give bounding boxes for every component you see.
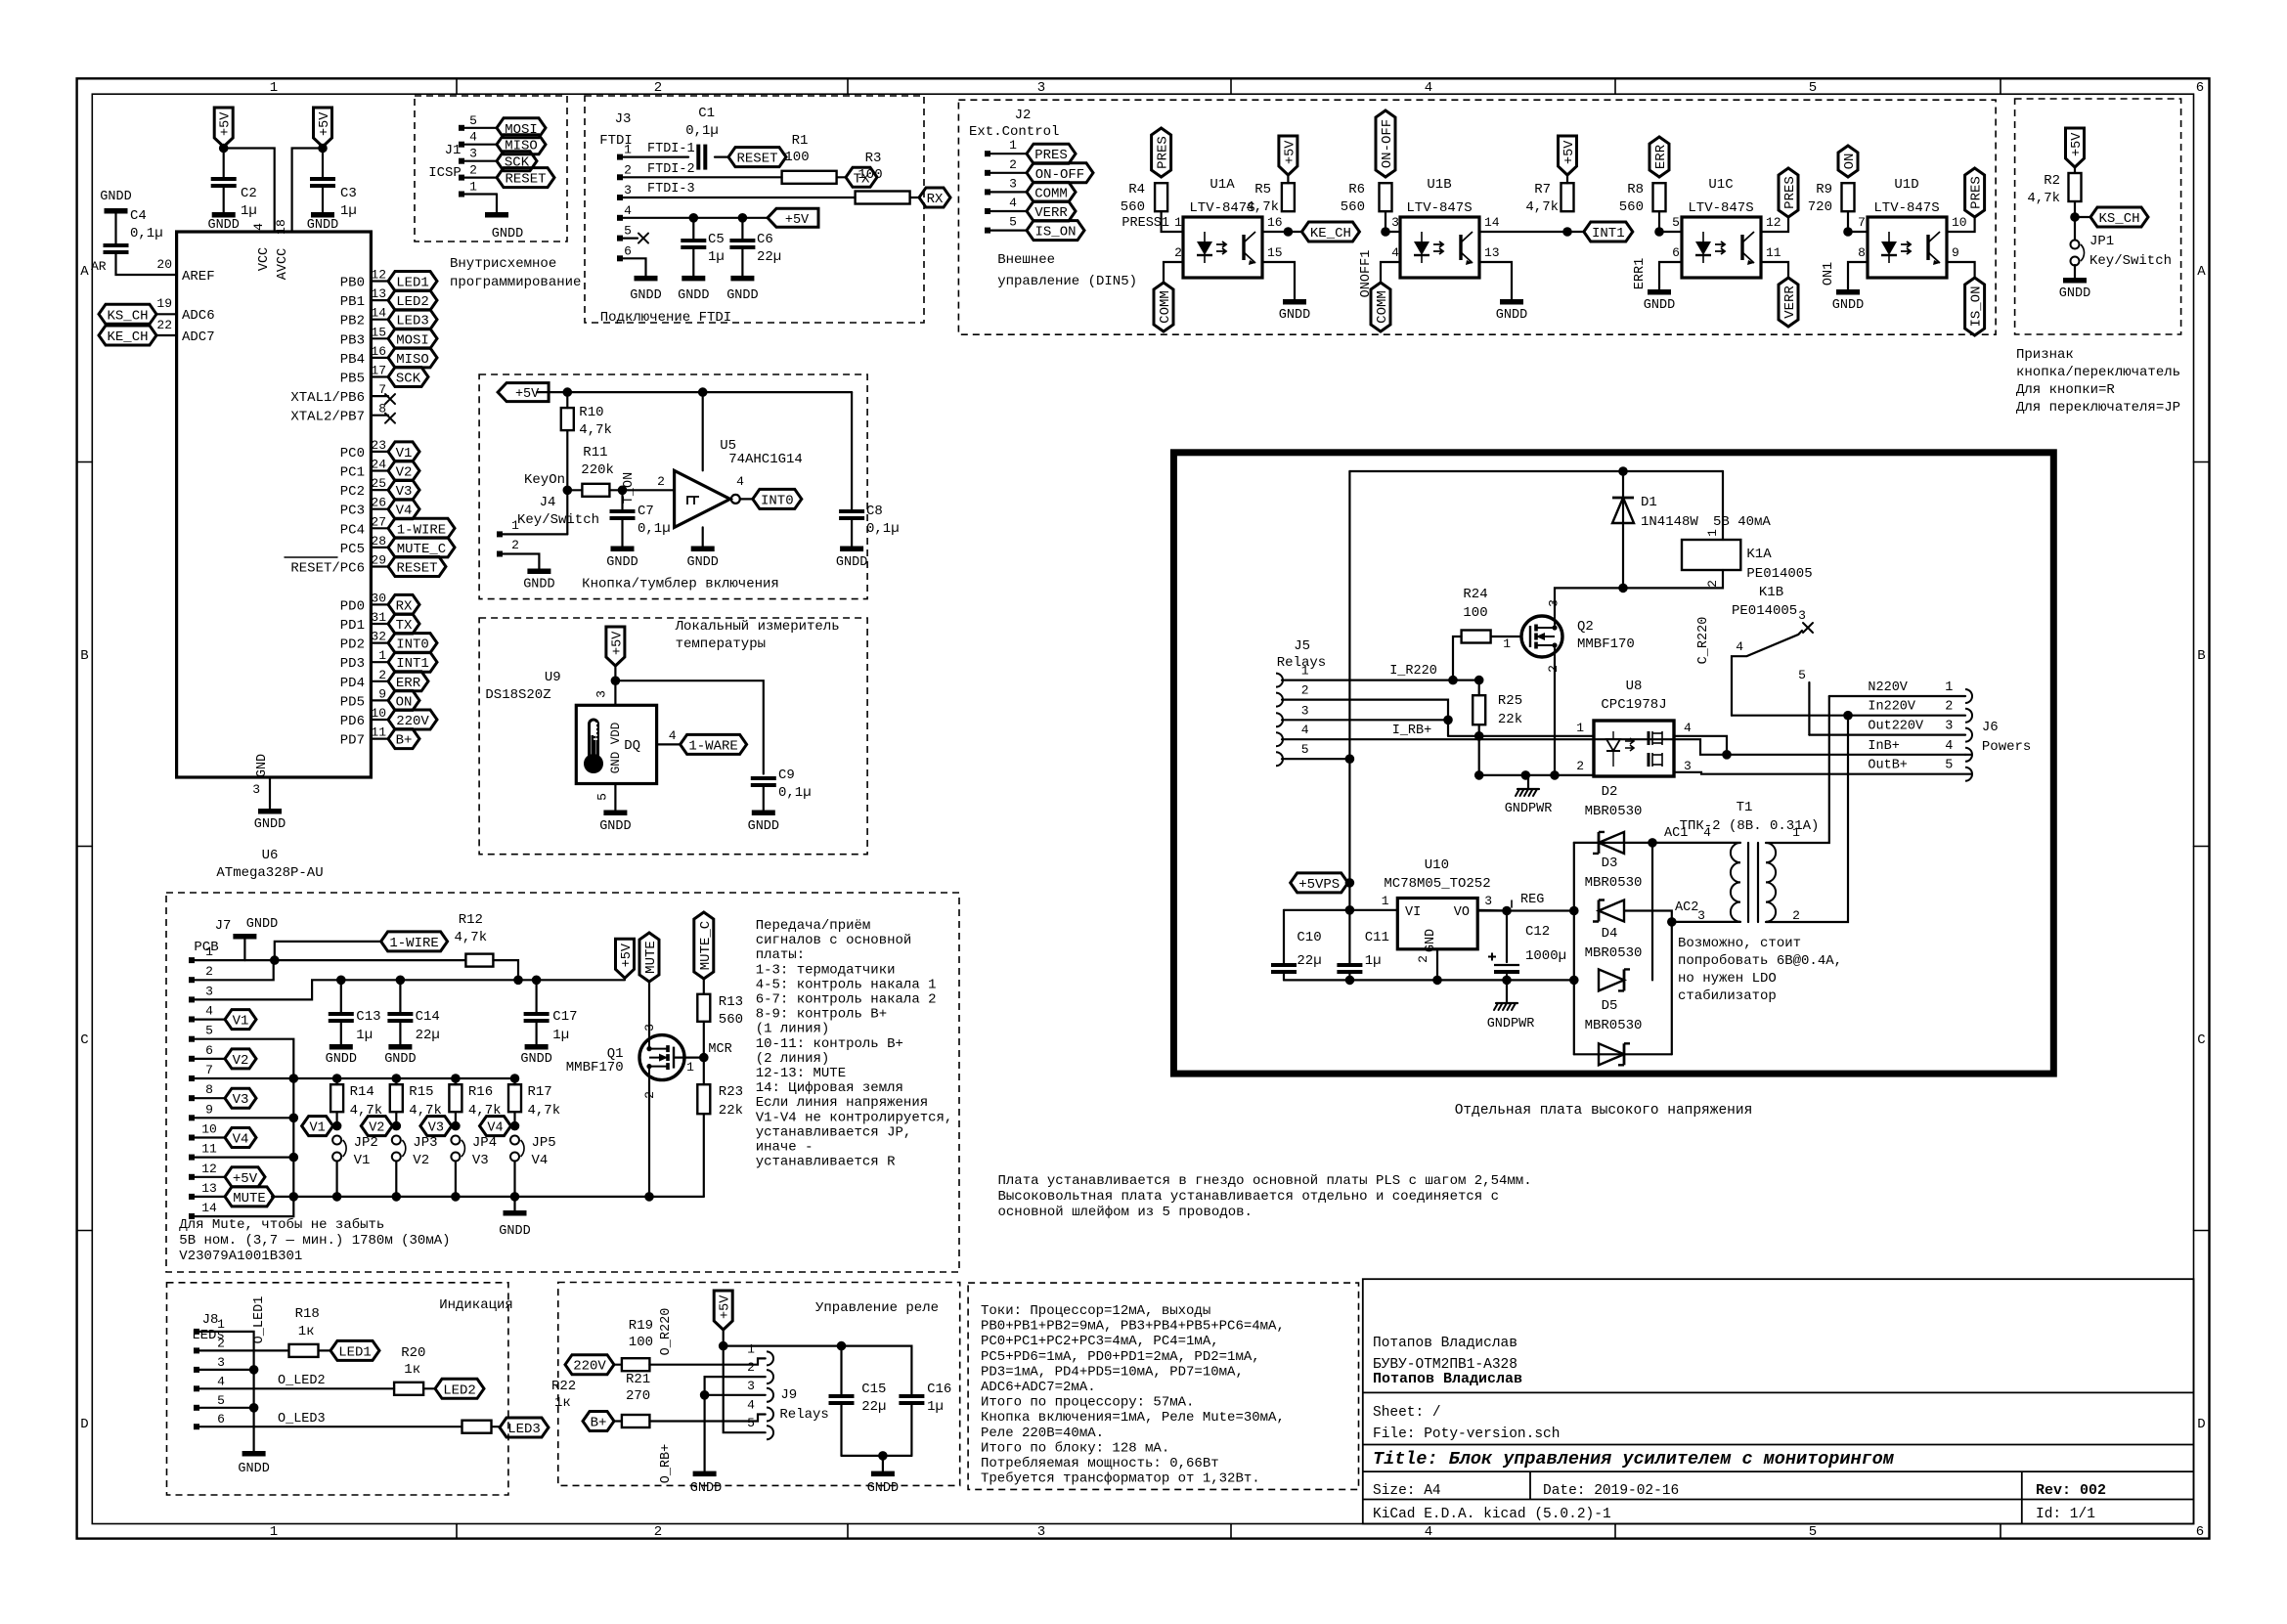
- label +5V (J7 pin12): [192, 1176, 225, 1178]
- svg-text:ADC7: ADC7: [182, 329, 215, 345]
- svg-text:3: 3: [1546, 599, 1561, 607]
- wire J5 pin 5: [1282, 758, 1349, 760]
- svg-text:D4: D4: [1602, 926, 1618, 942]
- svg-text:3: 3: [1945, 720, 1953, 734]
- svg-text:3: 3: [205, 984, 213, 998]
- label +5VPS: [1291, 873, 1348, 893]
- pin 6 J3: [617, 255, 623, 261]
- svg-text:GNDD: GNDD: [686, 555, 718, 570]
- svg-text:LED3: LED3: [396, 314, 429, 329]
- svg-text:C15: C15: [861, 1382, 886, 1397]
- svg-text:720: 720: [1808, 199, 1832, 215]
- svg-text:2: 2: [217, 1336, 225, 1350]
- svg-text:COMM: COMM: [1375, 290, 1390, 324]
- svg-text:Для кнопки=R: Для кнопки=R: [2016, 382, 2115, 398]
- svg-text:C13: C13: [356, 1009, 380, 1025]
- svg-text:R18: R18: [295, 1306, 320, 1322]
- svg-text:Управление реле: Управление реле: [815, 1300, 939, 1316]
- svg-text:R6: R6: [1348, 182, 1365, 198]
- svg-text:8-9: контроль B+: 8-9: контроль B+: [756, 1007, 887, 1023]
- svg-text:GNDD: GNDD: [678, 288, 709, 303]
- svg-text:17: 17: [371, 364, 386, 378]
- svg-text:управление (DIN5): управление (DIN5): [997, 274, 1137, 289]
- svg-text:GNDPWR: GNDPWR: [1505, 802, 1553, 816]
- svg-text:PRES: PRES: [1156, 136, 1171, 169]
- connector J8 LEDs block: [167, 1283, 508, 1495]
- text currents note block: [968, 1283, 1358, 1489]
- pin 5 J1 / label MOSI: [459, 125, 464, 131]
- svg-text:ON-OFF: ON-OFF: [1380, 119, 1395, 168]
- resistor R18 / label LED1: [197, 1349, 289, 1351]
- wire U10 GND: [1436, 949, 1438, 981]
- svg-text:2: 2: [657, 474, 665, 489]
- svg-text:PD0: PD0: [340, 598, 365, 614]
- svg-text:PB3: PB3: [340, 332, 365, 348]
- svg-text:560: 560: [1121, 199, 1145, 215]
- svg-text:12: 12: [1766, 215, 1781, 230]
- svg-text:22k: 22k: [719, 1103, 743, 1119]
- svg-text:4: 4: [736, 474, 744, 489]
- svg-text:15: 15: [1267, 245, 1283, 260]
- svg-text:FTDI-2: FTDI-2: [647, 162, 695, 177]
- svg-text:+5V: +5V: [233, 1171, 258, 1187]
- svg-text:ON: ON: [396, 694, 413, 710]
- wire AC1 vertical: [1651, 843, 1653, 981]
- diode D4: [1599, 969, 1624, 990]
- svg-text:1: 1: [1174, 215, 1182, 230]
- svg-text:5: 5: [1809, 80, 1817, 96]
- svg-text:PC0: PC0: [340, 446, 365, 461]
- svg-text:ON: ON: [1842, 154, 1858, 170]
- svg-text:RESET: RESET: [736, 152, 777, 167]
- svg-text:O_LED3: O_LED3: [278, 1412, 326, 1426]
- resistor R22 / label LED3: [197, 1426, 462, 1427]
- svg-text:R3: R3: [865, 151, 882, 166]
- svg-text:O_RB+: O_RB+: [659, 1444, 674, 1484]
- svg-text:1: 1: [270, 1524, 278, 1540]
- svg-text:PB0+PB1+PB2=9мА, PB3+PB4+PB5+P: PB0+PB1+PB2=9мА, PB3+PB4+PB5+PC6=4мА,: [981, 1319, 1285, 1335]
- svg-text:GNDPWR: GNDPWR: [1487, 1017, 1535, 1031]
- svg-text:74AHC1G14: 74AHC1G14: [728, 452, 803, 467]
- svg-text:V3: V3: [428, 1121, 444, 1136]
- svg-text:V2: V2: [369, 1121, 384, 1136]
- svg-text:KE_CH: KE_CH: [107, 329, 148, 345]
- wire +5V to J9.5: [724, 1330, 766, 1432]
- svg-text:J6: J6: [1982, 720, 1999, 735]
- svg-text:560: 560: [1341, 199, 1365, 215]
- svg-text:+5V: +5V: [1562, 140, 1577, 164]
- svg-text:InB+: InB+: [1868, 739, 1899, 754]
- svg-text:J1: J1: [445, 143, 462, 158]
- pin 3 J1 / label SCK: [459, 158, 464, 164]
- svg-text:6: 6: [205, 1043, 213, 1058]
- svg-text:IS_ON: IS_ON: [1969, 285, 1985, 327]
- svg-text:+5V: +5V: [620, 943, 635, 967]
- svg-text:2: 2: [1009, 157, 1017, 172]
- svg-text:ADC6: ADC6: [182, 308, 215, 324]
- svg-text:3: 3: [469, 147, 477, 161]
- svg-text:Возможно, стоит: Возможно, стоит: [1678, 936, 1801, 951]
- ground GNDPWR (C12): [1506, 980, 1508, 1003]
- svg-text:B+: B+: [591, 1416, 607, 1431]
- capacitor C10: [1283, 910, 1285, 964]
- svg-text:REG: REG: [1520, 893, 1544, 907]
- svg-text:PD6: PD6: [340, 714, 365, 729]
- svg-text:Потапов Владислав: Потапов Владислав: [1373, 1371, 1522, 1387]
- svg-text:T_ON: T_ON: [622, 472, 637, 504]
- jumper JP1 block: [2015, 99, 2181, 334]
- wire U8 pin1: [1448, 735, 1594, 737]
- svg-text:Итого по процессору: 57мА.: Итого по процессору: 57мА.: [981, 1395, 1194, 1411]
- svg-text:1µ: 1µ: [708, 249, 725, 265]
- svg-text:PC5: PC5: [340, 542, 365, 557]
- svg-text:MUTE: MUTE: [643, 941, 659, 974]
- svg-text:JP1: JP1: [2089, 234, 2114, 249]
- svg-text:иначе -: иначе -: [756, 1140, 814, 1156]
- svg-text:8: 8: [1858, 245, 1866, 260]
- svg-text:XTAL1/PB6: XTAL1/PB6: [290, 390, 365, 406]
- labels V1-V4 (J7 pins): [192, 1018, 225, 1020]
- svg-text:MBR0530: MBR0530: [1585, 1018, 1643, 1033]
- svg-text:PD1: PD1: [340, 618, 365, 634]
- svg-text:KE_CH: KE_CH: [1310, 226, 1351, 241]
- svg-text:10-11: контроль B+: 10-11: контроль B+: [756, 1036, 903, 1052]
- power button block (J4/U5): [479, 374, 867, 599]
- wire to C9: [615, 680, 763, 773]
- svg-text:Id: 1/1: Id: 1/1: [2036, 1507, 2095, 1522]
- svg-text:I_R220: I_R220: [1389, 664, 1437, 679]
- svg-text:4,7k: 4,7k: [1246, 199, 1279, 215]
- svg-text:PRES: PRES: [1782, 176, 1798, 209]
- svg-text:VI: VI: [1405, 905, 1421, 920]
- svg-text:TX: TX: [396, 618, 413, 634]
- svg-text:1: 1: [747, 1341, 755, 1356]
- svg-text:4: 4: [1684, 721, 1692, 735]
- capacitor C12 (polarized): [1506, 911, 1508, 963]
- wire: [500, 554, 539, 569]
- svg-text:100: 100: [858, 167, 882, 183]
- svg-text:RESET: RESET: [505, 172, 546, 188]
- wire caps to ground: [842, 1455, 912, 1457]
- svg-text:(2 линия): (2 линия): [756, 1051, 830, 1067]
- svg-text:GNDD: GNDD: [1832, 298, 1864, 313]
- svg-text:GNDD: GNDD: [207, 218, 239, 233]
- svg-text:5: 5: [217, 1393, 225, 1408]
- label MUTE (vertical): [639, 933, 659, 982]
- svg-text:5: 5: [747, 1416, 755, 1430]
- svg-text:+5VPS: +5VPS: [1298, 877, 1340, 893]
- wire REG row: [1477, 909, 1574, 911]
- svg-text:V4: V4: [396, 504, 413, 519]
- wire Q2 drain: [1555, 588, 1623, 616]
- svg-text:ICSP: ICSP: [428, 165, 462, 181]
- wire FTDI-2 / resistor R1 / label TX: [620, 176, 782, 178]
- svg-text:R19: R19: [629, 1318, 653, 1334]
- svg-text:3: 3: [624, 183, 632, 198]
- regulator U10 MC78M05: [1397, 899, 1477, 949]
- svg-text:4: 4: [205, 1004, 213, 1019]
- svg-text:FTDI-3: FTDI-3: [647, 182, 695, 197]
- svg-text:I_RB+: I_RB+: [1392, 724, 1432, 738]
- svg-text:5: 5: [1809, 1524, 1817, 1540]
- svg-text:6: 6: [2196, 1524, 2204, 1540]
- svg-text:основной шлейфом из 5 проводов: основной шлейфом из 5 проводов.: [998, 1204, 1253, 1220]
- svg-text:2: 2: [1792, 908, 1800, 923]
- svg-text:AR: AR: [91, 259, 107, 274]
- svg-text:устанавливается JP,: устанавливается JP,: [756, 1124, 912, 1140]
- svg-text:3: 3: [1037, 1524, 1045, 1540]
- svg-text:но нужен LDO: но нужен LDO: [1678, 971, 1777, 987]
- resistor R2: [2069, 173, 2082, 201]
- svg-text:C11: C11: [1365, 930, 1389, 945]
- svg-text:Токи: Процессор=12мА, выходы: Токи: Процессор=12мА, выходы: [981, 1303, 1210, 1319]
- wire pin2 joins pin1 node: [192, 960, 274, 980]
- svg-text:R9: R9: [1816, 182, 1832, 198]
- label B+ / resistor R21: [583, 1412, 614, 1431]
- svg-text:4: 4: [1425, 1524, 1432, 1540]
- svg-text:MUTE: MUTE: [233, 1191, 266, 1207]
- svg-text:Для Mute, чтобы не забыть: Для Mute, чтобы не забыть: [179, 1216, 384, 1233]
- svg-text:GNDD: GNDD: [606, 555, 638, 570]
- svg-text:INT0: INT0: [761, 493, 794, 508]
- opto-coupler U1D LTV-847S: [1868, 217, 1947, 278]
- resistor R17: [510, 1074, 520, 1083]
- svg-text:R16: R16: [468, 1084, 493, 1100]
- svg-text:платы:: платы:: [756, 947, 805, 963]
- svg-text:GND VDD: GND VDD: [609, 723, 623, 774]
- svg-text:3: 3: [594, 690, 608, 698]
- label ON-OFF: [1376, 110, 1395, 177]
- svg-text:JP2: JP2: [354, 1135, 378, 1151]
- svg-text:In220V: In220V: [1868, 700, 1916, 715]
- svg-text:DQ: DQ: [624, 738, 640, 754]
- svg-text:24: 24: [371, 458, 386, 472]
- svg-text:C3: C3: [340, 186, 357, 201]
- svg-text:U6: U6: [262, 848, 279, 863]
- relay control block (J9): [558, 1283, 960, 1486]
- svg-text:2: 2: [1301, 683, 1309, 698]
- wire +5V row: [620, 217, 768, 219]
- svg-text:O_LED1: O_LED1: [252, 1296, 267, 1344]
- svg-text:12-13: MUTE: 12-13: MUTE: [756, 1066, 846, 1081]
- svg-text:V1: V1: [354, 1153, 371, 1168]
- pin 15 to ground: [1262, 262, 1295, 299]
- diode D1 1N4148W: [1622, 471, 1624, 588]
- svg-text:2: 2: [747, 1360, 755, 1375]
- svg-text:KeyOn: KeyOn: [524, 472, 565, 488]
- svg-text:MMBF170: MMBF170: [566, 1060, 624, 1075]
- svg-text:Sheet: /: Sheet: /: [1373, 1405, 1441, 1421]
- opto-coupler U1C LTV-847S: [1682, 217, 1761, 278]
- svg-text:Кнопка/тумблер включения: Кнопка/тумблер включения: [582, 576, 779, 593]
- svg-text:ON-OFF: ON-OFF: [1035, 167, 1084, 183]
- svg-text:PC1: PC1: [340, 465, 365, 481]
- svg-text:C14: C14: [416, 1009, 440, 1025]
- svg-text:4: 4: [469, 130, 477, 145]
- svg-text:стабилизатор: стабилизатор: [1678, 988, 1777, 1004]
- svg-text:5: 5: [594, 793, 609, 801]
- svg-text:(1 линия): (1 линия): [756, 1022, 830, 1037]
- svg-text:9: 9: [205, 1102, 213, 1117]
- svg-text:PC3: PC3: [340, 504, 365, 519]
- svg-text:MC78M05_TO252: MC78M05_TO252: [1384, 876, 1490, 892]
- svg-text:AC2: AC2: [1675, 900, 1698, 915]
- resistor R15: [392, 1074, 402, 1083]
- mcu U6 ATmega328P-AU: [177, 232, 372, 777]
- svg-text:3: 3: [217, 1355, 225, 1370]
- svg-text:Out220V: Out220V: [1868, 720, 1924, 734]
- svg-text:2: 2: [1576, 759, 1584, 773]
- svg-text:GNDD: GNDD: [2059, 286, 2090, 301]
- pin 1 J2 / label PRES: [985, 151, 990, 156]
- svg-text:10: 10: [371, 706, 386, 721]
- svg-text:V1: V1: [309, 1121, 325, 1136]
- svg-text:10: 10: [1952, 215, 1967, 230]
- svg-text:температуры: температуры: [676, 636, 766, 652]
- resistor R6: [1380, 183, 1392, 211]
- svg-text:R24: R24: [1463, 587, 1487, 602]
- svg-text:Передача/приём: Передача/приём: [756, 918, 871, 934]
- capacitor C9: [751, 776, 776, 780]
- svg-text:4,7k: 4,7k: [1525, 199, 1559, 215]
- svg-text:Key/Switch: Key/Switch: [517, 512, 599, 528]
- svg-text:B: B: [2197, 648, 2205, 664]
- svg-text:220V: 220V: [573, 1359, 606, 1375]
- label COMM (U1A): [1154, 283, 1173, 331]
- pin 11 / label VERR (vertical): [1761, 262, 1788, 278]
- svg-text:1: 1: [1503, 636, 1511, 651]
- pin 12 / label PRES (vertical): [1761, 217, 1788, 232]
- svg-text:22µ: 22µ: [1297, 953, 1321, 969]
- svg-text:D: D: [80, 1417, 88, 1432]
- svg-text:LTV-847S: LTV-847S: [1688, 200, 1753, 216]
- svg-text:+5V: +5V: [2070, 132, 2085, 156]
- svg-text:1к: 1к: [404, 1362, 420, 1378]
- capacitor C7: [621, 490, 623, 510]
- svg-text:R12: R12: [459, 912, 483, 928]
- svg-text:2: 2: [624, 162, 632, 177]
- wire top +V rail: [1349, 470, 1723, 472]
- wire mute rail: [272, 1196, 704, 1198]
- svg-text:B: B: [80, 648, 88, 664]
- svg-text:5: 5: [1301, 742, 1309, 757]
- svg-text:1µ: 1µ: [241, 203, 257, 219]
- pin 3 J3: [617, 195, 623, 200]
- svg-text:2: 2: [1546, 665, 1561, 673]
- svg-text:U1B: U1B: [1427, 177, 1451, 193]
- svg-text:Title: Блок управления усилите: Title: Блок управления усилителем с мони…: [1373, 1449, 1895, 1470]
- opto-relay U8 CPC1978J: [1594, 721, 1674, 776]
- svg-text:PD3=1мА, PD4+PD5=10мА, PD7=10м: PD3=1мА, PD4+PD5=10мА, PD7=10мА,: [981, 1364, 1244, 1380]
- pin 4 J3: [617, 215, 623, 221]
- svg-text:6: 6: [2196, 80, 2204, 96]
- svg-text:560: 560: [719, 1012, 743, 1028]
- svg-text:GNDD: GNDD: [326, 1052, 357, 1067]
- wire U5 VCC: [702, 392, 704, 470]
- high-voltage board outline: [1173, 453, 2053, 1074]
- svg-text:29: 29: [371, 553, 386, 568]
- svg-text:220k: 220k: [581, 462, 614, 478]
- transistor Q2 MMBF170: [1521, 616, 1562, 657]
- wire AVCC: [292, 147, 323, 232]
- pin 13 to ground: [1479, 262, 1512, 299]
- pin 5 J2 / label IS_ON: [985, 228, 990, 234]
- wire In220V: [1732, 715, 1965, 717]
- svg-text:7: 7: [1858, 215, 1866, 230]
- svg-text:2: 2: [1174, 245, 1182, 260]
- wire: [2074, 201, 2076, 241]
- svg-text:+5V: +5V: [785, 213, 810, 228]
- svg-text:PD3: PD3: [340, 656, 365, 672]
- wire OutB+ hook: [1964, 754, 1966, 756]
- wire AC2 vertical (D5): [1671, 922, 1673, 1054]
- ground U5: [702, 527, 704, 546]
- svg-text:ERR1: ERR1: [1633, 258, 1648, 289]
- wire T_ON: [609, 489, 674, 491]
- pin 3 J2 / label COMM: [985, 189, 990, 195]
- svg-text:1µ: 1µ: [1365, 953, 1382, 969]
- svg-text:GNDD: GNDD: [599, 819, 631, 834]
- svg-text:V2: V2: [413, 1153, 429, 1168]
- wire +5V rail: [537, 391, 852, 393]
- svg-text:FTDI-1: FTDI-1: [647, 142, 695, 156]
- svg-text:4: 4: [1301, 723, 1309, 737]
- svg-text:Relays: Relays: [779, 1407, 828, 1423]
- pin 4 / label 1-WARE: [657, 743, 681, 745]
- wire Q1 source: [648, 1080, 650, 1197]
- svg-text:MISO: MISO: [396, 352, 429, 368]
- svg-text:8: 8: [205, 1082, 213, 1097]
- svg-text:MBR0530: MBR0530: [1585, 945, 1643, 961]
- svg-text:PRESS1: PRESS1: [1122, 216, 1169, 231]
- svg-text:Индикация: Индикация: [439, 1297, 513, 1313]
- svg-text:4,7k: 4,7k: [528, 1103, 561, 1119]
- svg-text:23: 23: [371, 438, 386, 453]
- svg-text:6-7: контроль накала 2: 6-7: контроль накала 2: [756, 992, 937, 1008]
- svg-text:1N4148W: 1N4148W: [1641, 514, 1698, 530]
- pin 5 no-connect: [620, 238, 638, 240]
- svg-text:Для переключателя=JP: Для переключателя=JP: [2016, 400, 2180, 416]
- power +5V (J9): [714, 1291, 732, 1330]
- svg-text:R1: R1: [792, 133, 809, 149]
- svg-text:C7: C7: [638, 504, 654, 519]
- svg-text:5: 5: [1945, 759, 1953, 773]
- svg-text:JP3: JP3: [413, 1135, 437, 1151]
- svg-text:PRES: PRES: [1969, 176, 1985, 209]
- pin 5 to ground: [614, 784, 616, 811]
- svg-text:ERR: ERR: [1653, 144, 1669, 169]
- svg-text:1µ: 1µ: [552, 1028, 569, 1043]
- svg-text:GNDD: GNDD: [630, 288, 661, 303]
- svg-text:20: 20: [156, 257, 172, 272]
- jumper JP5: [510, 1136, 519, 1145]
- power +5V: [498, 383, 549, 402]
- svg-text:PD7: PD7: [340, 733, 365, 749]
- svg-text:PD5: PD5: [340, 694, 365, 710]
- svg-text:1: 1: [270, 80, 278, 96]
- svg-text:Реле 220В=40мА.: Реле 220В=40мА.: [981, 1426, 1104, 1441]
- capacitor C11: [1348, 910, 1350, 964]
- resistor R8: [1653, 183, 1666, 211]
- svg-text:1: 1: [686, 1060, 694, 1075]
- svg-text:4: 4: [747, 1398, 755, 1413]
- capacitor C16: [899, 1394, 924, 1398]
- connector J6 Powers: [1965, 689, 1972, 703]
- svg-text:B+: B+: [396, 733, 413, 749]
- svg-text:0,1µ: 0,1µ: [638, 521, 671, 537]
- svg-text:32: 32: [371, 630, 386, 644]
- svg-text:GND: GND: [255, 754, 270, 777]
